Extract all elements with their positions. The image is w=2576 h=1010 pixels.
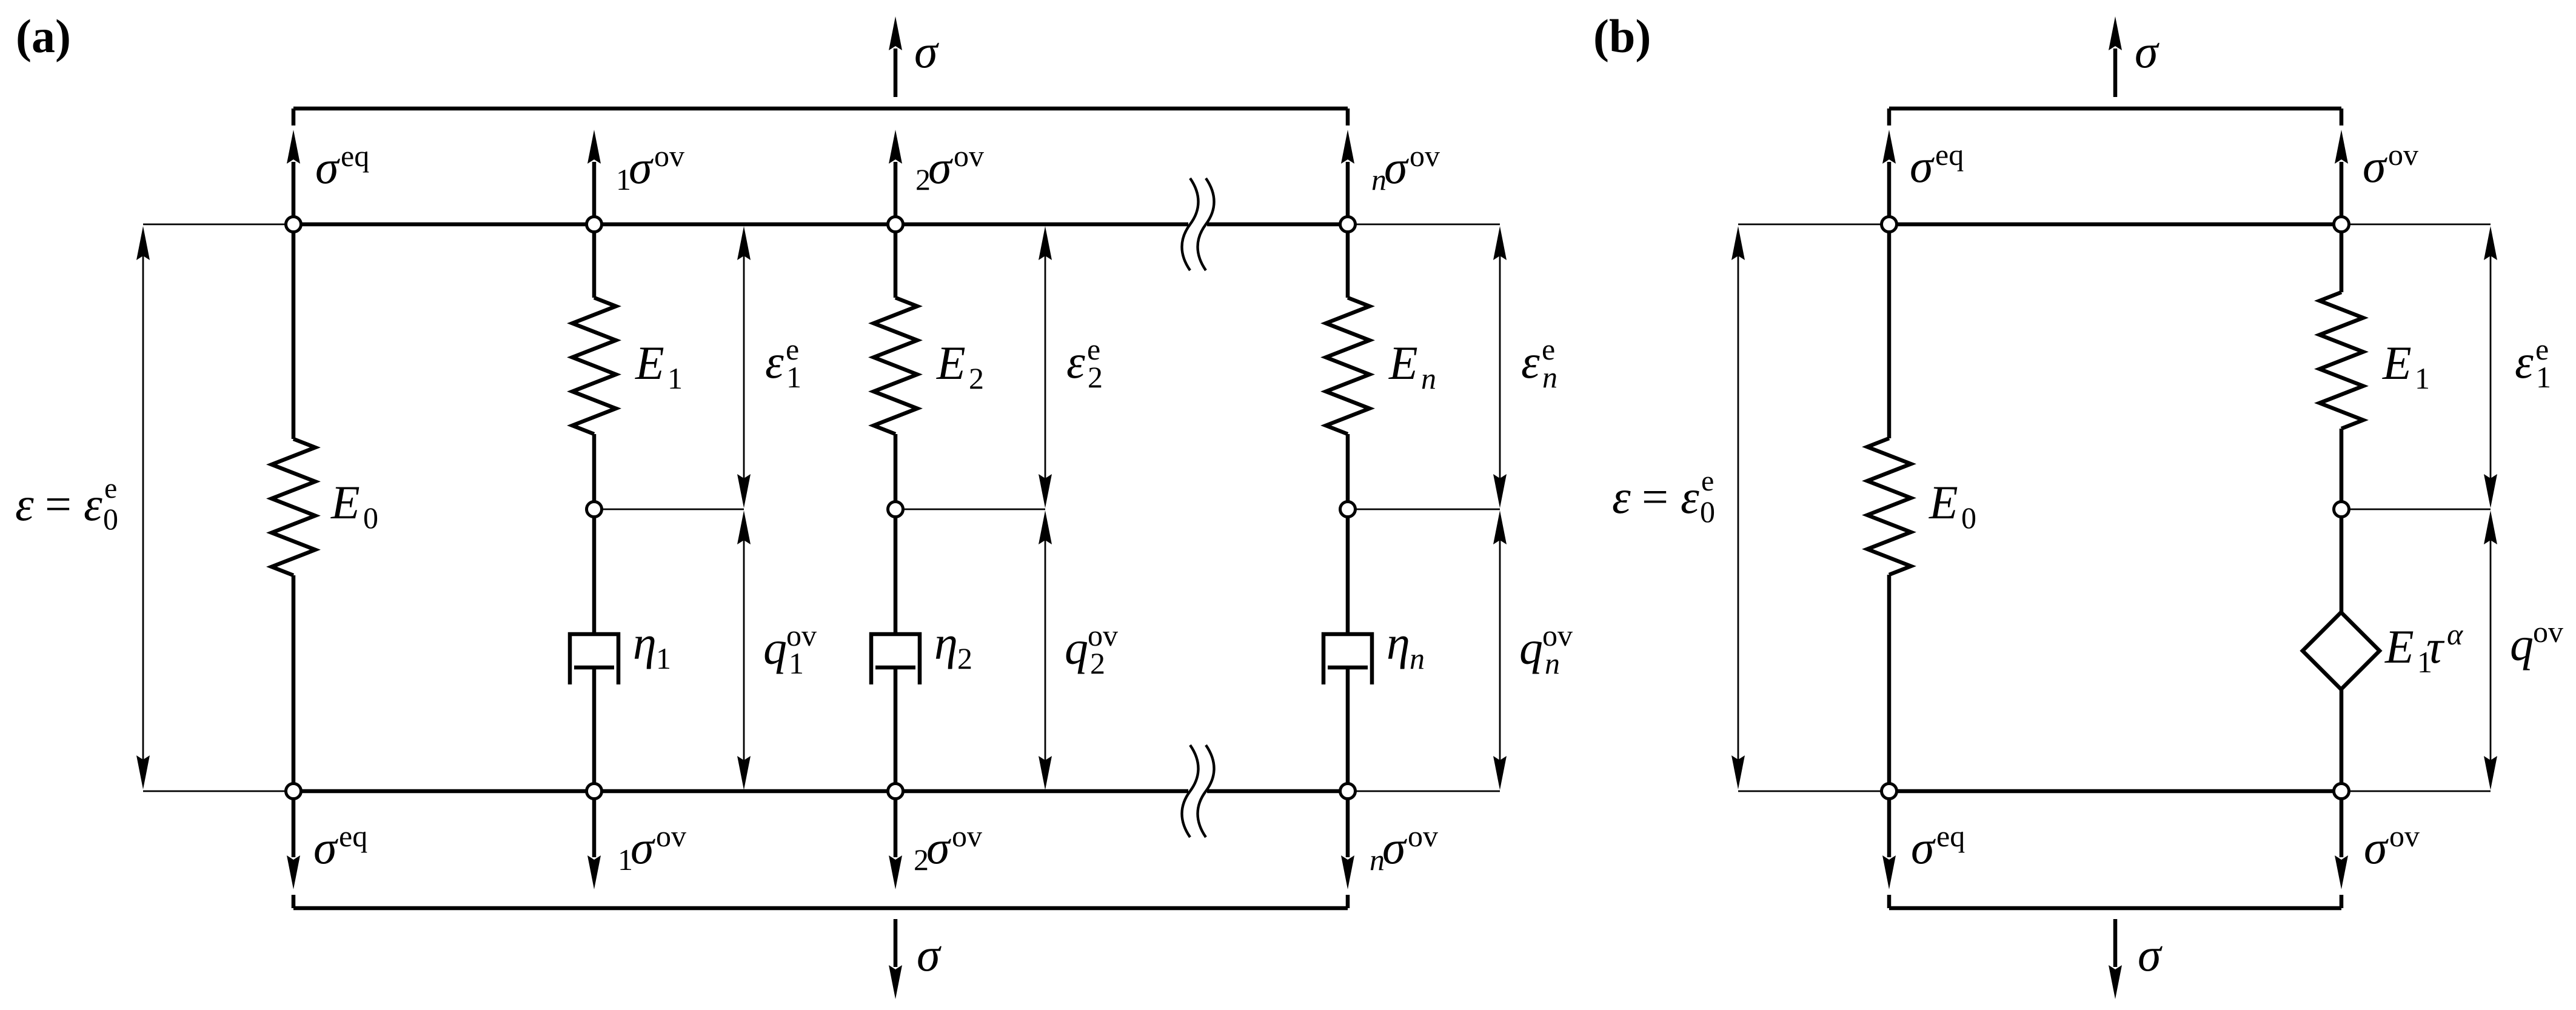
svg-text:e: e	[104, 472, 117, 504]
svg-text:1: 1	[789, 646, 804, 680]
svg-text:E: E	[936, 336, 966, 389]
svg-text:n: n	[1545, 646, 1560, 680]
svg-text:ov: ov	[2388, 138, 2418, 172]
svg-text:σ: σ	[917, 928, 942, 981]
svg-text:2: 2	[1088, 360, 1103, 394]
svg-text:ov: ov	[954, 139, 984, 173]
svg-text:α: α	[2447, 617, 2464, 651]
svg-text:1: 1	[667, 361, 683, 395]
svg-text:2: 2	[1090, 646, 1105, 680]
svg-text:E: E	[1388, 336, 1418, 389]
svg-text:σ: σ	[1910, 139, 1935, 192]
svg-text:1: 1	[656, 641, 671, 675]
svg-text:ov: ov	[656, 819, 686, 853]
svg-text:=: =	[1642, 470, 1668, 523]
svg-text:ε: ε	[15, 478, 34, 530]
svg-text:σ: σ	[313, 821, 338, 874]
svg-text:ε: ε	[1521, 335, 1540, 388]
svg-text:0: 0	[1961, 501, 1976, 535]
svg-text:ov: ov	[1410, 139, 1440, 173]
svg-text:E: E	[2382, 336, 2412, 389]
svg-text:ε: ε	[84, 478, 102, 530]
svg-text:2: 2	[969, 361, 984, 395]
svg-text:0: 0	[1700, 495, 1715, 529]
svg-text:q: q	[1519, 621, 1543, 674]
svg-text:σ: σ	[2138, 928, 2163, 981]
svg-text:σ: σ	[2135, 25, 2159, 78]
svg-text:ε: ε	[2515, 335, 2534, 388]
svg-text:0: 0	[363, 501, 378, 535]
svg-text:ε: ε	[1066, 335, 1085, 388]
svg-text:eq: eq	[339, 819, 367, 853]
svg-text:ov: ov	[2389, 819, 2420, 853]
svg-text:E: E	[1929, 476, 1958, 529]
svg-text:n: n	[1421, 361, 1436, 395]
svg-text:ov: ov	[654, 139, 684, 173]
svg-text:E: E	[330, 476, 360, 529]
svg-text:n: n	[1542, 360, 1557, 394]
svg-text:=: =	[45, 478, 72, 530]
svg-text:σ: σ	[928, 141, 953, 193]
svg-text:q: q	[2510, 618, 2534, 671]
svg-text:eq: eq	[1936, 819, 1965, 853]
svg-text:eq: eq	[341, 139, 369, 173]
svg-text:n: n	[1410, 641, 1425, 675]
svg-text:σ: σ	[631, 821, 655, 874]
svg-text:τ: τ	[2426, 620, 2445, 673]
svg-text:2: 2	[957, 641, 972, 675]
svg-text:1: 1	[2415, 361, 2430, 395]
svg-text:(b): (b)	[1593, 10, 1651, 62]
svg-text:σ: σ	[2363, 139, 2387, 192]
svg-text:σ: σ	[1382, 821, 1407, 874]
svg-text:σ: σ	[315, 141, 340, 193]
svg-text:q: q	[763, 621, 787, 674]
svg-text:ov: ov	[1408, 819, 1438, 853]
svg-text:η: η	[633, 617, 657, 669]
svg-text:σ: σ	[1911, 821, 1936, 874]
svg-text:ov: ov	[2533, 615, 2563, 649]
svg-text:η: η	[934, 617, 958, 669]
svg-text:q: q	[1065, 621, 1088, 674]
svg-text:eq: eq	[1935, 138, 1964, 172]
svg-text:E: E	[2384, 620, 2414, 673]
svg-text:σ: σ	[914, 25, 939, 78]
svg-text:σ: σ	[629, 141, 654, 193]
svg-text:ε: ε	[1681, 470, 1699, 523]
svg-text:η: η	[1387, 617, 1410, 669]
svg-text:ov: ov	[952, 819, 982, 853]
svg-text:(a): (a)	[16, 10, 71, 62]
svg-text:E: E	[635, 336, 664, 389]
svg-text:σ: σ	[1384, 141, 1409, 193]
svg-text:1: 1	[2536, 360, 2551, 394]
svg-text:e: e	[1701, 465, 1714, 497]
svg-text:σ: σ	[926, 821, 951, 874]
svg-text:σ: σ	[2364, 821, 2389, 874]
svg-text:1: 1	[786, 360, 801, 394]
svg-text:0: 0	[103, 502, 118, 536]
svg-text:ε: ε	[1612, 470, 1631, 523]
svg-text:ε: ε	[765, 335, 784, 388]
